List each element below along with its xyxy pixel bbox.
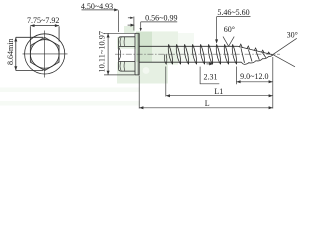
arrow 4.50 right	[114, 8, 118, 11]
svg-text:10.11~10.97: 10.11~10.97	[98, 31, 107, 73]
taper flank diagonal 1	[241, 48, 245, 63]
head facet line lower	[119, 60, 135, 62]
arrow 0.56 left	[131, 24, 135, 27]
svg-text:0.56~0.99: 0.56~0.99	[145, 14, 177, 23]
taper flank diagonal 2	[249, 50, 253, 62]
arrow L right	[269, 106, 273, 109]
taper scalloped bottom edge	[242, 55, 273, 64]
point tip 30 deg line lower	[273, 55, 295, 67]
arrow 9.0 right	[269, 80, 273, 83]
extension line tip	[272, 57, 274, 109]
arrow 10.11 bottom	[107, 71, 110, 75]
thread spindle 7	[216, 44, 220, 64]
extension line thread start	[165, 67, 167, 97]
watermark band below shank	[117, 62, 168, 84]
arrow 0.56 drop	[140, 28, 142, 31]
arrow 8.64 top	[14, 37, 17, 41]
taper crest triangle 3	[254, 48, 257, 51]
dimension 9.0~12.0 dim line	[236, 81, 272, 83]
svg-text:7.75~7.92: 7.75~7.92	[27, 16, 59, 25]
thread spindle 5	[200, 44, 204, 64]
end view center line horizontal	[23, 53, 68, 55]
head left face	[118, 39, 120, 70]
dimension 2.31 bracket	[200, 67, 219, 84]
dimension 0.56~0.99 drop line	[140, 22, 142, 31]
dimension 4.50~4.93 leader line	[82, 9, 118, 11]
end view inscribed circle (washer face)	[30, 40, 59, 69]
end view hexagon	[30, 37, 59, 70]
dimension 10.11~10.97 dim line	[107, 33, 109, 75]
flange left face	[134, 33, 136, 75]
taper root top line	[238, 46, 273, 54]
screw axis center line	[115, 53, 280, 55]
arrow 7.75 left	[30, 24, 34, 27]
dimension 7.75~7.92 lines	[30, 26, 59, 45]
flange serration line	[137, 34, 139, 74]
taper crest triangle 5	[268, 52, 270, 54]
thread spindle 9	[232, 44, 236, 64]
end view center line vertical	[44, 31, 46, 78]
svg-text:L: L	[205, 99, 210, 108]
arrow L left	[139, 106, 143, 109]
dimension 8.64min lines	[16, 37, 43, 70]
extension line flange top	[104, 32, 135, 34]
extension line head left	[118, 10, 120, 32]
watermark row in head top facet	[117, 37, 136, 49]
extension line flange left	[133, 17, 135, 31]
arrow 8.64 bottom	[14, 66, 17, 70]
end view chamfer arc 1	[29, 39, 60, 70]
dimension 0.56~0.99 left arrow line	[128, 24, 134, 26]
thread spindle 4	[192, 44, 196, 64]
flange bottom edge	[135, 74, 139, 76]
extension line washer face	[138, 76, 140, 109]
watermark faint field right	[178, 33, 194, 61]
thread spindle 3	[184, 44, 188, 64]
watermark faint band 1	[0, 88, 140, 93]
shank root bottom line	[139, 61, 241, 63]
arrow 5.46 leader	[215, 39, 218, 43]
extension line taper start	[235, 67, 237, 85]
thread spindle 2	[176, 44, 180, 64]
dimension 5.46~5.60 shelf	[217, 16, 251, 18]
shank root top line	[139, 45, 237, 47]
head facet line upper	[119, 45, 135, 47]
taper crest triangle 1	[239, 44, 242, 48]
dimension 0.56~0.99 shelf	[141, 21, 178, 23]
thread spindle 1	[168, 44, 172, 64]
dimension 5.46~5.60 leader drop	[216, 17, 218, 43]
dimension 2.31 arrow line	[207, 63, 213, 65]
dimension L dim line	[139, 107, 273, 109]
arrow 9.0 left	[236, 80, 240, 83]
svg-text:4.50~4.93: 4.50~4.93	[81, 2, 113, 11]
arrow L1 left	[166, 94, 170, 97]
watermark dense bar at flange	[136, 32, 152, 84]
arrow line at flange left	[128, 17, 133, 19]
washer bearing face	[138, 33, 140, 75]
60 degree V lines	[223, 37, 234, 47]
thread spindle 6	[208, 44, 212, 64]
end view outer flange circle	[25, 34, 65, 74]
svg-text:5.46~5.60: 5.46~5.60	[217, 8, 249, 17]
dimension L1 dim line	[166, 95, 273, 97]
watermark white circle cutout	[143, 67, 150, 74]
arrow 2.31	[209, 62, 213, 65]
point tip 30 deg line upper	[273, 38, 297, 54]
taper crest triangle 4	[261, 50, 264, 53]
watermark pale field behind threads	[152, 31, 178, 64]
arrow flange left	[130, 17, 133, 19]
end view chamfer arc 2	[29, 38, 61, 70]
arrow 10.11 top	[107, 33, 110, 37]
taper flank diagonal 4	[263, 53, 266, 58]
arrow 7.75 right	[55, 24, 59, 27]
taper crest triangle 2	[247, 46, 250, 50]
svg-text:8.64min: 8.64min	[6, 39, 15, 65]
svg-text:60°: 60°	[224, 25, 235, 34]
arrow L1 right	[269, 94, 273, 97]
svg-text:L1: L1	[214, 87, 223, 96]
svg-text:30°: 30°	[287, 30, 298, 39]
thread spindle 8	[224, 44, 228, 64]
extension line flange bottom	[104, 74, 135, 76]
flange top edge	[135, 32, 139, 34]
thread runout at start	[164, 55, 167, 65]
head bottom line with corner	[119, 69, 135, 71]
watermark block above head	[124, 26, 135, 33]
taper flank diagonal 3	[256, 51, 259, 59]
thread spindles	[168, 44, 272, 64]
svg-text:9.0~12.0: 9.0~12.0	[240, 72, 268, 81]
watermark faint band 2	[0, 101, 140, 106]
head bottom facet arc	[120, 62, 125, 71]
head top facet arc	[120, 37, 125, 46]
svg-text:2.31: 2.31	[204, 73, 218, 82]
head top line with corner	[119, 37, 135, 39]
head middle facet arc	[119, 47, 121, 60]
